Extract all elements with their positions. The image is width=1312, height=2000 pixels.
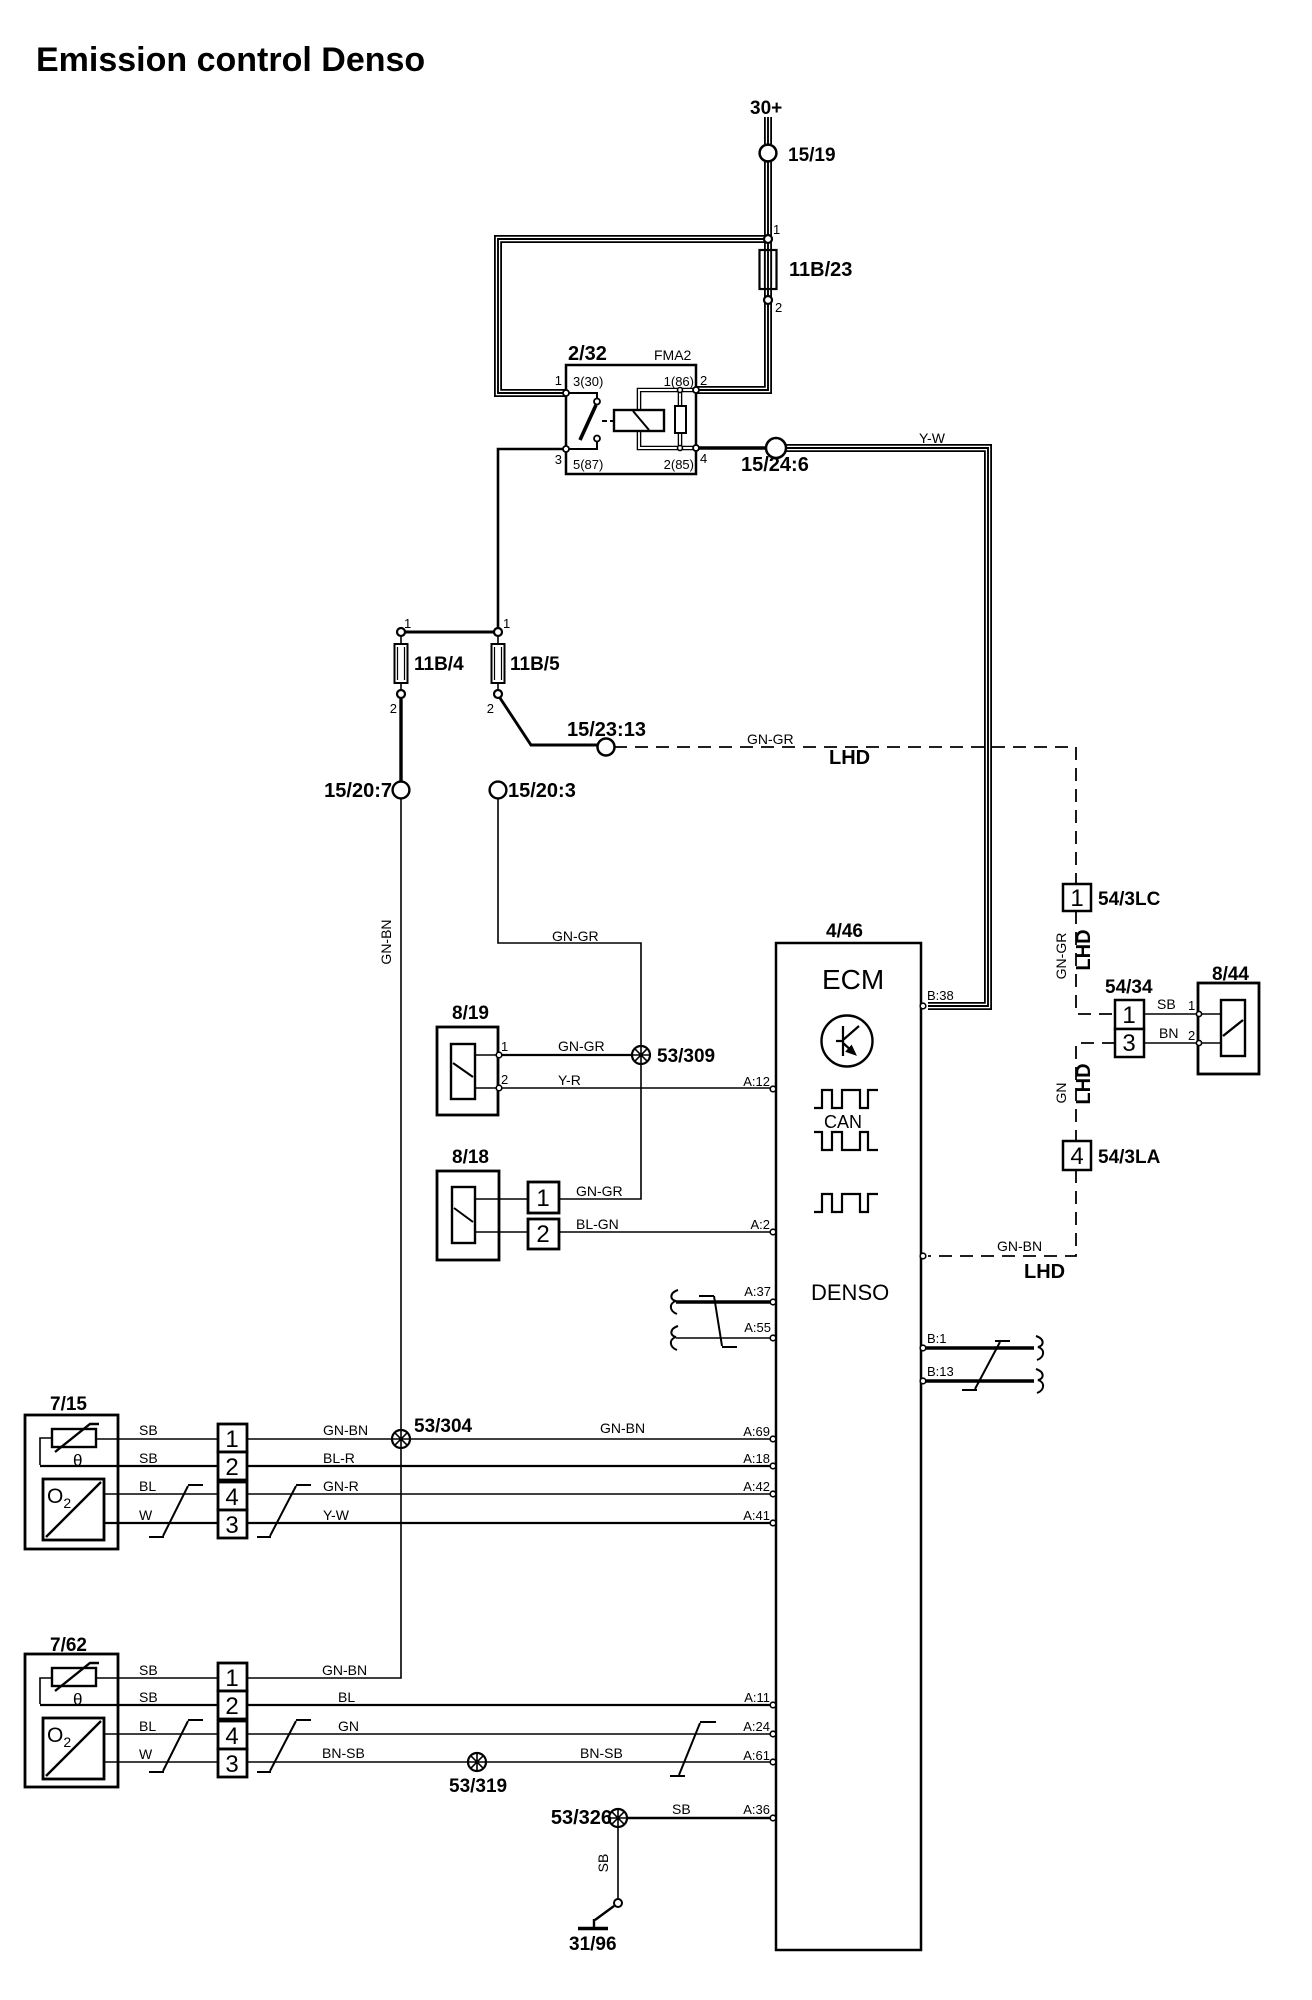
svg-text:B:1: B:1 bbox=[927, 1331, 947, 1346]
wire relay pin 3 to fuse junction bbox=[498, 449, 566, 631]
connector pin 3 of 7/15 bbox=[218, 1510, 247, 1538]
svg-text:54/3LA: 54/3LA bbox=[1098, 1147, 1161, 1168]
svg-text:3: 3 bbox=[555, 452, 562, 467]
fuse 11B/23 bbox=[760, 250, 777, 289]
connector pin 4 of 7/62 bbox=[218, 1721, 247, 1749]
svg-text:2: 2 bbox=[225, 1693, 238, 1720]
connector pin 2 of 7/15 bbox=[218, 1452, 247, 1480]
wire 8/18 element to pin 2 bbox=[475, 1231, 528, 1233]
svg-text:8/19: 8/19 bbox=[452, 1003, 489, 1024]
ECM pin B:13 bbox=[920, 1378, 926, 1384]
wire BN 54/34 pin 3 to 8/44 pin 2 bbox=[1144, 1042, 1221, 1044]
svg-text:3: 3 bbox=[225, 1512, 238, 1539]
wire SB row 2 of 7/62 to ECM A:11 bbox=[40, 1704, 772, 1706]
svg-text:4: 4 bbox=[1070, 1143, 1083, 1170]
ECM pin A:55 bbox=[770, 1335, 776, 1341]
twisted pair mark B:1/B:13 bbox=[962, 1341, 1010, 1390]
svg-text:θ: θ bbox=[73, 1451, 82, 1470]
svg-text:SB: SB bbox=[1157, 996, 1176, 1012]
pin 1 of 8/19 bbox=[496, 1052, 502, 1058]
ECM pin A:18 bbox=[770, 1463, 776, 1469]
wire fuse 11B/5 pin 2 to node 15/23:13 bbox=[498, 695, 598, 745]
svg-text:11B/4: 11B/4 bbox=[414, 654, 464, 675]
svg-text:3: 3 bbox=[1122, 1030, 1135, 1057]
pin 2 of 8/44 bbox=[1196, 1040, 1201, 1045]
svg-text:2: 2 bbox=[775, 300, 782, 315]
splice 53/326 bbox=[609, 1809, 627, 1827]
svg-text:Y-W: Y-W bbox=[919, 430, 946, 446]
connector 54/3LA bbox=[1063, 1141, 1091, 1170]
svg-text:8/44: 8/44 bbox=[1212, 964, 1249, 985]
svg-text:Y-R: Y-R bbox=[558, 1072, 581, 1088]
svg-text:SB: SB bbox=[139, 1422, 158, 1438]
svg-text:2: 2 bbox=[1188, 1028, 1195, 1043]
svg-text:A:18: A:18 bbox=[743, 1451, 770, 1466]
wire stubs of fuse 11B/5 bbox=[497, 632, 499, 694]
ECM pin A:2 bbox=[770, 1229, 776, 1235]
svg-text:GN-GR: GN-GR bbox=[747, 731, 794, 747]
wire relay internal coil loop bbox=[639, 390, 697, 448]
svg-text:BL: BL bbox=[338, 1689, 355, 1705]
fuse 11B/4 bbox=[395, 644, 408, 683]
ECM pin A:12 bbox=[770, 1086, 776, 1092]
connector pin 3 of 7/62 bbox=[218, 1749, 247, 1777]
wire GN-GR node 15/20:3 down and over to splice 53/309 bbox=[498, 798, 641, 1046]
svg-text:31/96: 31/96 bbox=[569, 1934, 617, 1955]
wire 30+ supply feed to node 15/19 bbox=[764, 117, 772, 144]
svg-text:1: 1 bbox=[404, 616, 411, 631]
CAN square wave upper bbox=[814, 1090, 878, 1108]
svg-text:FMA2: FMA2 bbox=[654, 347, 692, 363]
wire thermistor loop of 7/15 bbox=[40, 1438, 52, 1465]
connector pin 2 of 8/18 bbox=[528, 1219, 559, 1249]
svg-text:2: 2 bbox=[700, 373, 707, 388]
svg-text:GN-BN: GN-BN bbox=[378, 919, 394, 964]
svg-text:W: W bbox=[139, 1507, 153, 1523]
relay coil bbox=[614, 410, 664, 431]
svg-text:2/32: 2/32 bbox=[568, 343, 607, 365]
svg-text:2: 2 bbox=[501, 1072, 508, 1087]
svg-text:7/62: 7/62 bbox=[50, 1635, 87, 1656]
ECM pin A:24 bbox=[770, 1731, 776, 1737]
svg-text:7/15: 7/15 bbox=[50, 1394, 87, 1415]
connector 54/34 pin 1 bbox=[1115, 1000, 1144, 1029]
svg-text:A:2: A:2 bbox=[750, 1217, 770, 1232]
svg-text:53/326: 53/326 bbox=[551, 1807, 612, 1829]
svg-text:BN: BN bbox=[1159, 1025, 1178, 1041]
svg-text:1(86): 1(86) bbox=[664, 374, 694, 389]
svg-text:A:61: A:61 bbox=[743, 1748, 770, 1763]
fuse 11B/5 bbox=[492, 644, 505, 683]
wire dashed GN-BN from 54/3LA to ECM B:40 bbox=[928, 1170, 1076, 1256]
svg-text:LHD: LHD bbox=[1073, 929, 1095, 970]
svg-text:A:37: A:37 bbox=[744, 1284, 771, 1299]
wire SB row 1 of 7/15 through splice 53/304 to ECM A:69 bbox=[96, 1438, 772, 1440]
wire dashed GN-GR LHD from node 15/23:13 to connector 54/3LC bbox=[614, 747, 1076, 884]
svg-text:53/304: 53/304 bbox=[414, 1416, 473, 1437]
svg-text:5(87): 5(87) bbox=[573, 457, 603, 472]
svg-text:15/23:13: 15/23:13 bbox=[567, 719, 646, 741]
svg-text:1: 1 bbox=[1070, 885, 1083, 912]
node 15/20:7 bbox=[393, 782, 410, 799]
junction pin 2 of fuse 11B/5 bbox=[494, 690, 502, 698]
square wave lower group bbox=[814, 1194, 878, 1212]
svg-text:1: 1 bbox=[1122, 1002, 1135, 1029]
break squiggle B:13 bbox=[1036, 1369, 1043, 1393]
junction pin 1 of fuse 11B/5 bbox=[494, 628, 502, 636]
svg-text:θ: θ bbox=[73, 1690, 82, 1709]
svg-text:BL: BL bbox=[139, 1478, 156, 1494]
CAN square wave lower bbox=[814, 1132, 878, 1150]
pin 2 of 8/19 bbox=[496, 1085, 502, 1091]
svg-text:A:41: A:41 bbox=[743, 1508, 770, 1523]
O2 sensor in 7/15 bbox=[43, 1479, 104, 1540]
svg-text:15/19: 15/19 bbox=[788, 145, 836, 166]
ECM pin A:42 bbox=[770, 1491, 776, 1497]
node 15/19 bbox=[760, 145, 777, 162]
svg-text:B:13: B:13 bbox=[927, 1364, 954, 1379]
svg-text:3(30): 3(30) bbox=[573, 374, 603, 389]
svg-text:CAN: CAN bbox=[824, 1112, 862, 1132]
wire SB splice 53/326 to ECM A:36 bbox=[627, 1817, 772, 1820]
node 15/20:3 bbox=[490, 782, 507, 799]
ECM pin B:38 bbox=[920, 1003, 926, 1009]
svg-text:LHD: LHD bbox=[1024, 1261, 1065, 1283]
component 8/18 box bbox=[437, 1171, 499, 1260]
svg-text:B:38: B:38 bbox=[927, 988, 954, 1003]
svg-text:1: 1 bbox=[225, 1426, 238, 1453]
component 7/62 box bbox=[25, 1654, 118, 1787]
wire BL row 4 of 7/15 to ECM A:42 bbox=[104, 1493, 772, 1495]
svg-text:BL-GN: BL-GN bbox=[576, 1216, 619, 1232]
break squiggle A:55 bbox=[671, 1326, 678, 1350]
svg-text:BL-R: BL-R bbox=[323, 1450, 355, 1466]
ECM pin A:36 bbox=[770, 1815, 776, 1821]
pin 1 of 8/44 bbox=[1196, 1011, 1201, 1016]
component 8/44 box bbox=[1198, 983, 1259, 1074]
wire GN-GR splice 53/309 down to pin 1 of 8/18 bbox=[559, 1064, 641, 1199]
twisted pair mark 7/62 left bbox=[149, 1720, 203, 1772]
connector pin 4 of 7/15 bbox=[218, 1482, 247, 1510]
connector pin 1 of 8/18 bbox=[528, 1182, 559, 1213]
svg-text:Y-W: Y-W bbox=[323, 1507, 350, 1523]
wire GN-BN splice 53/304 down to row 1 of 7/62 bbox=[96, 1448, 401, 1678]
ECM pin A:61 bbox=[770, 1759, 776, 1765]
svg-text:1: 1 bbox=[555, 373, 562, 388]
svg-text:LHD: LHD bbox=[829, 747, 870, 769]
svg-text:BN-SB: BN-SB bbox=[322, 1745, 365, 1761]
ECM pin A:41 bbox=[770, 1520, 776, 1526]
svg-text:4: 4 bbox=[225, 1484, 238, 1511]
svg-text:4: 4 bbox=[700, 451, 707, 466]
svg-text:1: 1 bbox=[503, 616, 510, 631]
connector pin 2 of 7/62 bbox=[218, 1691, 247, 1719]
wire fuse 11B/4 pin 2 to node 15/20:7 bbox=[399, 697, 402, 783]
svg-text:4: 4 bbox=[225, 1723, 238, 1750]
twisted pair mark 7/15 right bbox=[257, 1485, 311, 1537]
component 8/19 box bbox=[437, 1027, 498, 1115]
svg-text:4/46: 4/46 bbox=[826, 921, 863, 942]
junction pin 1 of fuse 11B/4 bbox=[397, 628, 405, 636]
wire branch loop from junction 1 to relay pin 1 bbox=[498, 239, 768, 393]
svg-text:GN: GN bbox=[1053, 1083, 1069, 1104]
svg-text:GN-GR: GN-GR bbox=[552, 928, 599, 944]
svg-text:54/3LC: 54/3LC bbox=[1098, 889, 1161, 910]
svg-text:53/309: 53/309 bbox=[657, 1046, 715, 1067]
svg-text:15/20:3: 15/20:3 bbox=[508, 780, 576, 802]
wire pin 2 inside 8/19 bbox=[475, 1087, 497, 1089]
ground switch 31/96 bbox=[578, 1899, 622, 1929]
svg-text:2: 2 bbox=[487, 701, 494, 716]
ECM pin A:37 bbox=[770, 1299, 776, 1305]
svg-text:1: 1 bbox=[773, 222, 780, 237]
node 15/23:13 bbox=[598, 739, 615, 756]
svg-text:1: 1 bbox=[536, 1185, 549, 1212]
svg-text:BL: BL bbox=[139, 1718, 156, 1734]
svg-text:DENSO: DENSO bbox=[811, 1280, 889, 1305]
wire junction bar between fuses 11B/4 and 11B/5 bbox=[401, 631, 498, 634]
svg-text:SB: SB bbox=[595, 1854, 611, 1873]
wire stubs of fuse 11B/4 bbox=[400, 632, 402, 694]
svg-text:SB: SB bbox=[139, 1662, 158, 1678]
wire GN-BN node 15/20:7 down to splice 53/304 bbox=[400, 798, 402, 1430]
break squiggle A:37 bbox=[671, 1290, 678, 1314]
twisted pair mark 7/62 right bbox=[257, 1720, 311, 1772]
svg-text:LHD: LHD bbox=[1073, 1063, 1095, 1104]
svg-text:A:55: A:55 bbox=[744, 1320, 771, 1335]
svg-text:SB: SB bbox=[139, 1450, 158, 1466]
transistor symbol in ECM bbox=[822, 1016, 873, 1067]
svg-text:30+: 30+ bbox=[750, 98, 782, 119]
twisted pair mark A:37/A:55 bbox=[699, 1296, 737, 1347]
splice 53/309 bbox=[632, 1046, 650, 1064]
svg-text:2(85): 2(85) bbox=[664, 457, 694, 472]
svg-text:GN-BN: GN-BN bbox=[997, 1238, 1042, 1254]
resistor in relay bbox=[675, 406, 686, 433]
svg-text:GN-BN: GN-BN bbox=[322, 1662, 367, 1678]
relay pin 3 bbox=[563, 446, 569, 452]
svg-text:GN-BN: GN-BN bbox=[323, 1422, 368, 1438]
svg-text:2: 2 bbox=[225, 1454, 238, 1481]
svg-text:A:42: A:42 bbox=[743, 1479, 770, 1494]
svg-text:A:24: A:24 bbox=[743, 1719, 770, 1734]
junction pin 1 of fuse 11B/23 bbox=[764, 235, 772, 243]
svg-text:W: W bbox=[139, 1746, 153, 1762]
splice 53/304 bbox=[392, 1430, 410, 1448]
svg-text:15/20:7: 15/20:7 bbox=[324, 780, 392, 802]
wire pin 1 inside 8/19 bbox=[475, 1054, 497, 1056]
splice 53/319 bbox=[468, 1753, 486, 1771]
connector pin 1 of 7/62 bbox=[218, 1663, 247, 1691]
svg-text:GN-BN: GN-BN bbox=[600, 1420, 645, 1436]
wire stub ECM A:37 bbox=[676, 1300, 772, 1303]
svg-text:A:36: A:36 bbox=[743, 1802, 770, 1817]
wire SB row 2 of 7/15 to ECM A:18 bbox=[40, 1465, 772, 1467]
relay pin 4 bbox=[693, 445, 699, 451]
wire Y-R pin 2 of 8/19 to ECM A:12 bbox=[502, 1087, 773, 1089]
svg-text:11B/5: 11B/5 bbox=[510, 654, 560, 675]
svg-text:SB: SB bbox=[672, 1801, 691, 1817]
wire node 15/19 to fuse 11B/23 to relay pin 2 bbox=[697, 162, 768, 390]
ECM pin B:1 bbox=[920, 1345, 926, 1351]
O2 sensor in 7/62 bbox=[43, 1718, 104, 1779]
svg-text:GN-GR: GN-GR bbox=[576, 1183, 623, 1199]
relay switch bbox=[566, 393, 615, 449]
svg-text:Emission control Denso: Emission control Denso bbox=[36, 41, 425, 79]
ECM pin A:11 bbox=[770, 1702, 776, 1708]
wire W row 3 of 7/62 through splice 53/319 to ECM A:61 bbox=[104, 1761, 772, 1763]
svg-text:GN: GN bbox=[338, 1718, 359, 1734]
twisted pair mark A:24/A:61 bbox=[670, 1722, 716, 1776]
twisted pair mark 7/15 left bbox=[149, 1485, 203, 1537]
relay coil junction bottom bbox=[678, 446, 683, 451]
wire relay resistor branch bbox=[678, 390, 683, 448]
svg-text:1: 1 bbox=[225, 1665, 238, 1692]
svg-text:SB: SB bbox=[139, 1689, 158, 1705]
svg-text:2: 2 bbox=[536, 1221, 549, 1248]
svg-text:1: 1 bbox=[501, 1039, 508, 1054]
connector pin 1 of 7/15 bbox=[218, 1424, 247, 1452]
svg-text:ECM: ECM bbox=[822, 964, 884, 995]
wire SB splice 53/326 down to ground switch bbox=[617, 1827, 619, 1899]
svg-text:GN-GR: GN-GR bbox=[1053, 933, 1069, 980]
ECM pin A:69 bbox=[770, 1436, 776, 1442]
wire dashed GN from 54/34 pin 3 to 54/3LA bbox=[1076, 1043, 1115, 1141]
wire stub ECM B:1 bbox=[924, 1346, 1034, 1349]
relay pin 1 bbox=[563, 390, 569, 396]
break squiggle B:1 bbox=[1036, 1336, 1043, 1360]
svg-text:8/18: 8/18 bbox=[452, 1147, 489, 1168]
connector 54/3LC bbox=[1063, 884, 1091, 911]
wire 8/18 element to pin 1 bbox=[475, 1198, 528, 1200]
svg-text:3: 3 bbox=[225, 1751, 238, 1778]
wire W row 3 of 7/15 to ECM A:41 bbox=[104, 1522, 772, 1524]
svg-text:54/34: 54/34 bbox=[1105, 977, 1153, 998]
ECM 4/46 box bbox=[776, 943, 921, 1950]
wire Y-W from node 15/24:6 to ECM B:38 bbox=[784, 448, 988, 1006]
junction pin 2 of fuse 11B/23 bbox=[764, 296, 772, 304]
relay coil junction top bbox=[678, 388, 683, 393]
svg-text:A:11: A:11 bbox=[744, 1690, 770, 1705]
thermistor in 7/15 bbox=[52, 1429, 96, 1447]
thermistor in 7/62 bbox=[52, 1668, 96, 1686]
wire dashed GN-GR from 54/3LC to 54/34 pin 1 bbox=[1076, 911, 1115, 1014]
wire BL row 4 of 7/62 to ECM A:24 bbox=[104, 1733, 772, 1735]
svg-text:A:12: A:12 bbox=[743, 1074, 770, 1089]
wire relay pin 4 to node 15/24:6 bbox=[696, 446, 768, 449]
wire stub ECM A:55 bbox=[676, 1337, 772, 1339]
wire GN-GR pin 1 of 8/19 to splice 53/309 bbox=[502, 1054, 634, 1056]
svg-text:11B/23: 11B/23 bbox=[789, 259, 852, 281]
component 7/15 box bbox=[25, 1415, 118, 1549]
wire thermistor loop of 7/62 bbox=[40, 1678, 52, 1704]
svg-text:15/24:6: 15/24:6 bbox=[741, 454, 809, 476]
relay pin 2 bbox=[693, 387, 699, 393]
ECM pin B:40 bbox=[920, 1253, 926, 1259]
wire stub ECM B:13 bbox=[924, 1379, 1034, 1382]
svg-text:A:69: A:69 bbox=[743, 1424, 770, 1439]
wire BL-GN pin 2 of 8/18 to ECM A:2 bbox=[559, 1231, 773, 1233]
svg-text:53/319: 53/319 bbox=[449, 1776, 507, 1797]
connector 54/34 pin 3 bbox=[1115, 1029, 1144, 1057]
svg-text:GN-GR: GN-GR bbox=[558, 1038, 605, 1054]
wire SB 54/34 pin 1 to 8/44 pin 1 bbox=[1144, 1013, 1221, 1015]
svg-text:BN-SB: BN-SB bbox=[580, 1745, 623, 1761]
svg-text:1: 1 bbox=[1188, 998, 1195, 1013]
relay 2/32 box bbox=[566, 365, 696, 474]
svg-text:2: 2 bbox=[390, 701, 397, 716]
svg-text:GN-R: GN-R bbox=[323, 1478, 359, 1494]
node 15/24:6 bbox=[766, 438, 786, 458]
junction pin 2 of fuse 11B/4 bbox=[397, 690, 405, 698]
